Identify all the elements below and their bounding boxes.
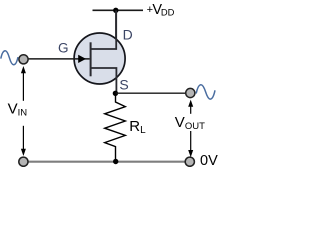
transistor source branch xyxy=(91,68,117,93)
svg-text:D: D xyxy=(123,26,133,42)
terminal output xyxy=(186,88,195,97)
node VDD junction xyxy=(113,8,118,13)
wire 0V rail xyxy=(23,161,189,163)
svg-text:DD: DD xyxy=(161,7,175,18)
svg-text:RL: RL xyxy=(129,118,146,136)
arrow VIN xyxy=(21,66,26,156)
source sine output xyxy=(196,85,215,99)
resistor RL xyxy=(105,93,126,161)
wire drain xyxy=(115,10,117,48)
terminal input xyxy=(19,55,28,64)
svg-text:0V: 0V xyxy=(200,153,218,169)
transistor MOSFET body xyxy=(74,33,125,84)
svg-text:S: S xyxy=(119,76,128,92)
wire gate xyxy=(27,58,90,60)
node source junction xyxy=(113,91,118,96)
transistor drain branch xyxy=(91,11,116,50)
svg-text:VIN: VIN xyxy=(8,101,28,119)
node RL bottom junction xyxy=(113,159,118,164)
arrow VOUT xyxy=(188,100,193,158)
svg-text:G: G xyxy=(58,41,69,56)
terminal ground right xyxy=(185,157,194,166)
transistor gate arrowhead xyxy=(78,55,86,63)
svg-text:VOUT: VOUT xyxy=(175,114,205,132)
source sine input xyxy=(1,51,18,65)
terminal ground left xyxy=(19,157,28,166)
wire output xyxy=(115,92,186,94)
transistor gate bar xyxy=(90,42,92,76)
wire top rail xyxy=(93,9,144,11)
